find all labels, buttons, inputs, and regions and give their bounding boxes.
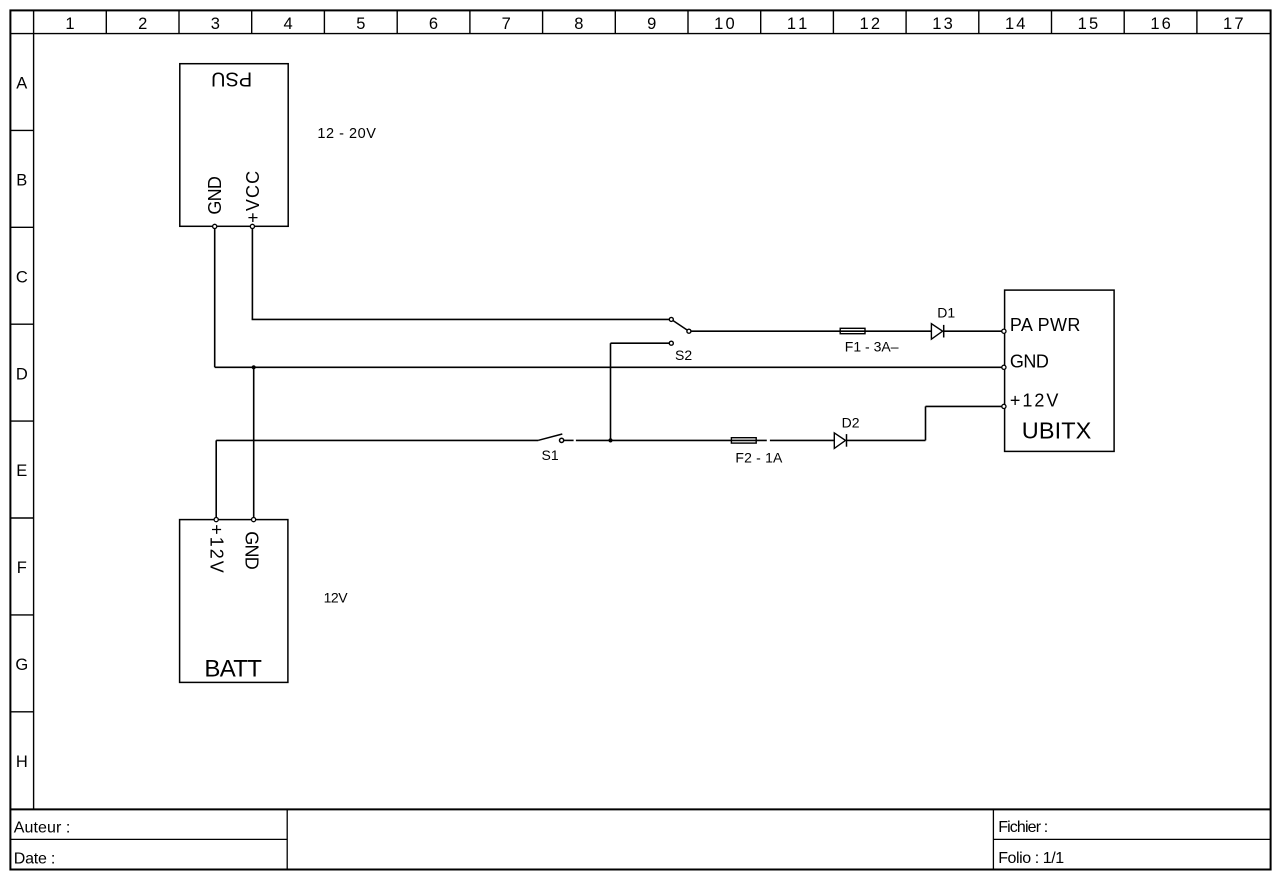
svg-text:F1 - 3A–: F1 - 3A– — [845, 338, 899, 354]
wire GND branch down to BATT — [253, 367, 255, 519]
svg-text:S1: S1 — [542, 447, 559, 463]
svg-text:C: C — [16, 268, 28, 286]
wire +VCC horizontal to switch S2 upper throw — [252, 318, 670, 320]
fuse F1 value label F1 - 3A — [845, 338, 899, 354]
pin +12V of BATT — [206, 518, 226, 573]
svg-text:2: 2 — [138, 15, 147, 33]
svg-text:D1: D1 — [937, 305, 955, 321]
block BATT — [180, 520, 288, 683]
wire +12V horizontal to switch S1 — [216, 439, 538, 441]
wire GND horizontal from PSU to UBITX GND pin — [215, 366, 1003, 368]
svg-text:PSU: PSU — [211, 68, 252, 90]
svg-text:UBITX: UBITX — [1022, 417, 1092, 443]
wire +12V from BATT pin up — [215, 440, 217, 519]
svg-text:Auteur :: Auteur : — [14, 820, 71, 837]
svg-text:F2 - 1A: F2 - 1A — [735, 449, 783, 465]
svg-text:Folio : 1/1: Folio : 1/1 — [998, 850, 1064, 867]
pin GND of PSU — [205, 176, 225, 228]
svg-text:12V: 12V — [324, 589, 349, 605]
svg-text:D: D — [16, 365, 28, 383]
svg-text:Date :: Date : — [14, 850, 56, 867]
svg-text:F: F — [17, 559, 27, 577]
svg-text:12 - 20V: 12 - 20V — [317, 126, 376, 142]
wire from S1 contact to junction and fuse F2 — [564, 439, 834, 441]
svg-text:6: 6 — [429, 15, 438, 33]
wire from diode D2 to riser and UBITX +12V pin — [846, 406, 1002, 440]
junction node S2 lower throw / S1 output — [608, 438, 612, 442]
svg-text:H: H — [16, 753, 28, 771]
svg-text:GND: GND — [1010, 351, 1049, 371]
pin +12V of UBITX — [1002, 390, 1059, 410]
switch S2 — [669, 317, 691, 345]
svg-text:7: 7 — [502, 15, 511, 33]
fuse F2 — [731, 438, 756, 443]
wire +VCC vertical from PSU pin down — [251, 226, 253, 319]
diode D2 — [834, 433, 846, 449]
wire from S2 common through fuse F1 to diode D1 — [691, 330, 931, 332]
svg-text:3: 3 — [211, 15, 220, 33]
switch S1 label — [542, 447, 559, 463]
svg-text:4: 4 — [284, 15, 293, 33]
svg-text:E: E — [16, 462, 27, 480]
wire from diode D1 to UBITX PA PWR pin — [944, 330, 1003, 332]
pin PA PWR of UBITX — [1002, 315, 1081, 335]
svg-text:BATT: BATT — [204, 656, 262, 683]
svg-text:S2: S2 — [675, 347, 692, 363]
pin GND of UBITX — [1002, 351, 1049, 371]
block PSU — [180, 64, 288, 227]
svg-text:A: A — [16, 75, 27, 93]
svg-text:1: 1 — [65, 15, 74, 33]
diode D1 — [931, 324, 943, 340]
svg-text:GND: GND — [205, 176, 225, 215]
net label 12V — [324, 589, 349, 605]
svg-text:GND: GND — [242, 531, 262, 570]
svg-text:Fichier :: Fichier : — [998, 819, 1048, 836]
diode D1 label — [937, 305, 955, 321]
fuse F1 — [840, 328, 865, 333]
svg-text:D2: D2 — [842, 414, 860, 430]
svg-text:PA PWR: PA PWR — [1010, 315, 1081, 335]
fuse F2 value label F2 - 1A — [735, 449, 783, 465]
net label 12 - 20V — [317, 126, 376, 142]
svg-text:+12V: +12V — [206, 524, 226, 573]
pin +VCC of PSU — [243, 171, 263, 229]
svg-text:8: 8 — [574, 15, 583, 33]
block UBITX — [1005, 290, 1115, 451]
svg-text:G: G — [15, 656, 28, 674]
svg-text:+12V: +12V — [1010, 390, 1059, 410]
svg-text:B: B — [16, 172, 27, 190]
switch S2 label — [675, 347, 692, 363]
svg-text:9: 9 — [647, 15, 656, 33]
svg-text:+VCC: +VCC — [243, 171, 263, 223]
wire GND vertical from PSU pin down — [214, 226, 216, 367]
wire S2 lower throw branch — [611, 343, 670, 440]
svg-text:5: 5 — [356, 15, 365, 33]
junction node GND / BATT branch — [252, 365, 256, 369]
diode D2 label — [842, 414, 860, 430]
pin GND of BATT — [242, 518, 262, 570]
switch S1 — [538, 434, 563, 443]
